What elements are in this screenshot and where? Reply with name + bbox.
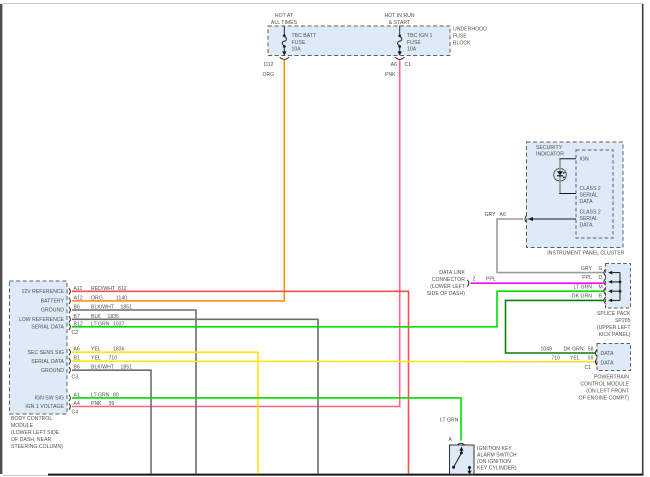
BCM pin B6 <box>69 305 80 314</box>
svg-text:A6: A6 <box>391 62 397 68</box>
BCM pin A1 <box>69 392 80 401</box>
svg-text:(ON LEFT FRONT: (ON LEFT FRONT <box>586 389 629 395</box>
svg-text:DK GRN: DK GRN <box>564 347 584 353</box>
svg-text:D: D <box>599 275 603 281</box>
svg-text:SP205: SP205 <box>615 318 631 324</box>
underhood fuse block <box>268 26 487 56</box>
splice pin D <box>582 275 605 285</box>
svg-text:C3: C3 <box>72 375 79 381</box>
wire BLK 1835 (BCM B7) <box>72 314 318 474</box>
svg-text:SPLICE PACK: SPLICE PACK <box>597 311 631 317</box>
svg-text:HOT IN RUN: HOT IN RUN <box>384 13 414 19</box>
svg-text:(LOWER LEFT: (LOWER LEFT <box>430 284 465 290</box>
body control module BCM <box>10 281 68 450</box>
svg-text:IGN: IGN <box>580 157 589 163</box>
svg-text:A: A <box>449 437 453 443</box>
splice pin G <box>581 266 606 276</box>
svg-text:FUSE: FUSE <box>292 40 306 46</box>
BCM pin B6 (C3) <box>69 365 80 374</box>
svg-text:D12: D12 <box>264 62 274 68</box>
svg-text:STEERING COLUMN): STEERING COLUMN) <box>11 444 63 450</box>
wire LED to CLASS 2 SERIAL DATA <box>559 193 576 195</box>
svg-text:GROUND: GROUND <box>41 368 64 374</box>
svg-text:KICK PANEL): KICK PANEL) <box>599 332 631 338</box>
svg-text:10A: 10A <box>292 47 302 53</box>
svg-text:CLASS 2: CLASS 2 <box>580 186 601 192</box>
svg-text:58: 58 <box>588 347 594 353</box>
svg-text:GRY: GRY <box>581 266 593 272</box>
svg-text:PPL: PPL <box>582 275 592 281</box>
connector A (ignition key alarm switch) <box>449 437 466 446</box>
splice pack SP205 <box>597 264 631 339</box>
data link connector DLC <box>427 270 496 297</box>
svg-text:A6: A6 <box>500 212 506 218</box>
svg-text:DATA: DATA <box>580 223 594 229</box>
svg-text:ORG: ORG <box>263 72 275 78</box>
svg-text:10A: 10A <box>407 47 417 53</box>
svg-text:CONTROL MODULE: CONTROL MODULE <box>580 382 629 388</box>
power feed HOT IN RUN & START <box>384 13 414 35</box>
svg-text:2: 2 <box>473 277 476 283</box>
wire BLK/WHT 1851 (BCM B6 C3) <box>72 365 151 474</box>
svg-text:(UPPER LEFT: (UPPER LEFT <box>597 325 631 331</box>
svg-text:SEC SENS SIG: SEC SENS SIG <box>27 350 64 356</box>
BCM pin A6 <box>69 347 80 356</box>
fuse TBC IGN 1 10A <box>398 33 433 56</box>
powertrain control module PCM <box>579 344 631 402</box>
svg-text:39: 39 <box>109 401 115 407</box>
wire LT GRN 1037 (BCM B12 to splice pack M) <box>72 291 604 327</box>
svg-text:INSTRUMENT PANEL CLUSTER: INSTRUMENT PANEL CLUSTER <box>547 251 625 257</box>
svg-text:1140: 1140 <box>116 295 127 301</box>
svg-text:INDICATOR: INDICATOR <box>536 152 564 158</box>
wire YEL 710 (BCM B1 to PCM 59) <box>72 356 596 362</box>
BCM pin B12 <box>69 321 125 330</box>
svg-text:59: 59 <box>588 356 594 362</box>
power feed HOT AT ALL TIMES <box>271 13 298 35</box>
svg-text:SERIAL: SERIAL <box>580 216 599 222</box>
svg-text:SERIAL DATA: SERIAL DATA <box>31 359 64 365</box>
svg-text:C1: C1 <box>585 365 592 371</box>
BCM pin B1 <box>69 356 117 365</box>
svg-text:OF DASH, NEAR: OF DASH, NEAR <box>11 437 52 443</box>
svg-text:GROUND: GROUND <box>41 308 64 314</box>
svg-text:DATA LINK: DATA LINK <box>439 270 465 276</box>
svg-text:12V REFERENCE: 12V REFERENCE <box>21 289 64 295</box>
connector D12 <box>264 57 289 68</box>
svg-text:DATA: DATA <box>601 361 615 367</box>
splice pin B <box>572 294 606 304</box>
svg-text:HOT AT: HOT AT <box>275 13 293 19</box>
BCM pin B7 <box>69 314 80 323</box>
svg-text:CLASS 2: CLASS 2 <box>580 210 601 216</box>
svg-text:CONNECTOR: CONNECTOR <box>432 277 465 283</box>
svg-text:A4: A4 <box>74 401 80 407</box>
wire YEL 1836 (BCM A6) <box>72 347 258 474</box>
svg-text:YEL: YEL <box>570 356 580 362</box>
svg-text:TBC BATT: TBC BATT <box>292 33 317 39</box>
svg-text:ALARM SWITCH: ALARM SWITCH <box>477 453 517 459</box>
connector A6 / C1 <box>391 57 412 68</box>
svg-text:M: M <box>599 284 603 290</box>
svg-text:TBC IGN 1: TBC IGN 1 <box>407 33 432 39</box>
svg-text:DK GRN: DK GRN <box>572 294 592 300</box>
BCM pin A11 <box>69 286 83 295</box>
IPC inner module box <box>576 150 613 238</box>
svg-text:LT GRN: LT GRN <box>440 418 459 424</box>
svg-text:FUSE: FUSE <box>407 40 421 46</box>
svg-text:C1: C1 <box>405 62 412 68</box>
fuse TBC BATT 10A <box>282 33 316 56</box>
security indicator LED <box>554 159 567 194</box>
svg-text:PNK: PNK <box>385 72 396 78</box>
wire PPL (DLC 2 to splice pack D) <box>471 282 604 284</box>
svg-text:(ON IGNITION: (ON IGNITION <box>477 459 511 465</box>
wire LT GRN 80 (BCM A1 to ignition key alarm switch) <box>72 392 461 440</box>
svg-text:IGN 1 VOLTAGE: IGN 1 VOLTAGE <box>25 404 64 410</box>
wire ORG 1140 (fuse D12 to BCM A12) <box>72 60 284 301</box>
BCM pin A4 <box>69 401 115 410</box>
svg-text:PPL: PPL <box>486 277 496 283</box>
svg-text:SERIAL DATA: SERIAL DATA <box>31 325 64 331</box>
splice bus <box>608 271 621 303</box>
svg-text:FUSE: FUSE <box>453 34 467 40</box>
svg-text:(LOWER LEFT SIDE: (LOWER LEFT SIDE <box>11 430 60 436</box>
svg-text:POWERTRAIN: POWERTRAIN <box>594 375 629 381</box>
svg-text:BLOCK: BLOCK <box>453 41 471 47</box>
instrument panel cluster U-IPC <box>527 142 625 257</box>
wire GRY (IPC A6 to splice pack G) <box>497 219 604 273</box>
svg-text:B: B <box>599 294 603 300</box>
svg-text:UNDERHOOD: UNDERHOOD <box>453 27 487 33</box>
wire IGN feed to LED <box>559 158 576 160</box>
svg-text:ORG: ORG <box>91 295 103 301</box>
IPC pin A6 connector <box>485 212 577 222</box>
wire RED/WHT 812 (BCM A11) <box>72 286 409 474</box>
svg-text:G: G <box>599 266 603 272</box>
svg-text:C2: C2 <box>72 330 79 336</box>
svg-text:OF ENGINE COMPT): OF ENGINE COMPT) <box>579 396 630 402</box>
wire BLK/WHT 1851 (BCM B6) <box>72 305 196 474</box>
svg-text:LOW REFERENCE: LOW REFERENCE <box>19 317 65 323</box>
svg-text:SIDE OF DASH): SIDE OF DASH) <box>427 291 466 297</box>
svg-text:SECURITY: SECURITY <box>536 145 563 151</box>
svg-text:MODULE: MODULE <box>11 423 34 429</box>
svg-text:PNK: PNK <box>91 401 102 407</box>
svg-text:DATA: DATA <box>580 199 594 205</box>
svg-text:BODY CONTROL: BODY CONTROL <box>11 416 52 422</box>
svg-text:ALL TIMES: ALL TIMES <box>271 20 298 26</box>
svg-text:LT GRN: LT GRN <box>573 284 592 290</box>
svg-text:KEY CYLINDER): KEY CYLINDER) <box>477 466 517 472</box>
svg-text:SERIAL: SERIAL <box>580 193 599 199</box>
svg-text:BATTERY: BATTERY <box>41 299 65 305</box>
svg-text:A12: A12 <box>74 295 83 301</box>
svg-text:1049: 1049 <box>540 347 552 353</box>
svg-text:GRY: GRY <box>485 212 497 218</box>
svg-text:IGNITION KEY: IGNITION KEY <box>477 446 512 452</box>
svg-text:710: 710 <box>551 356 560 362</box>
svg-text:C4: C4 <box>72 410 79 416</box>
BCM pin A12 <box>69 295 127 304</box>
svg-text:DATA: DATA <box>601 351 615 357</box>
wire DK GRN 1049 (splice pack B to PCM 58) <box>506 300 604 353</box>
svg-text:IGN SW SIG: IGN SW SIG <box>35 396 64 402</box>
ignition key alarm switch <box>450 445 517 475</box>
svg-text:& START: & START <box>389 20 410 26</box>
splice pin M <box>573 284 605 294</box>
wire PNK 39 (fuse C1 to BCM A4) <box>72 60 400 407</box>
